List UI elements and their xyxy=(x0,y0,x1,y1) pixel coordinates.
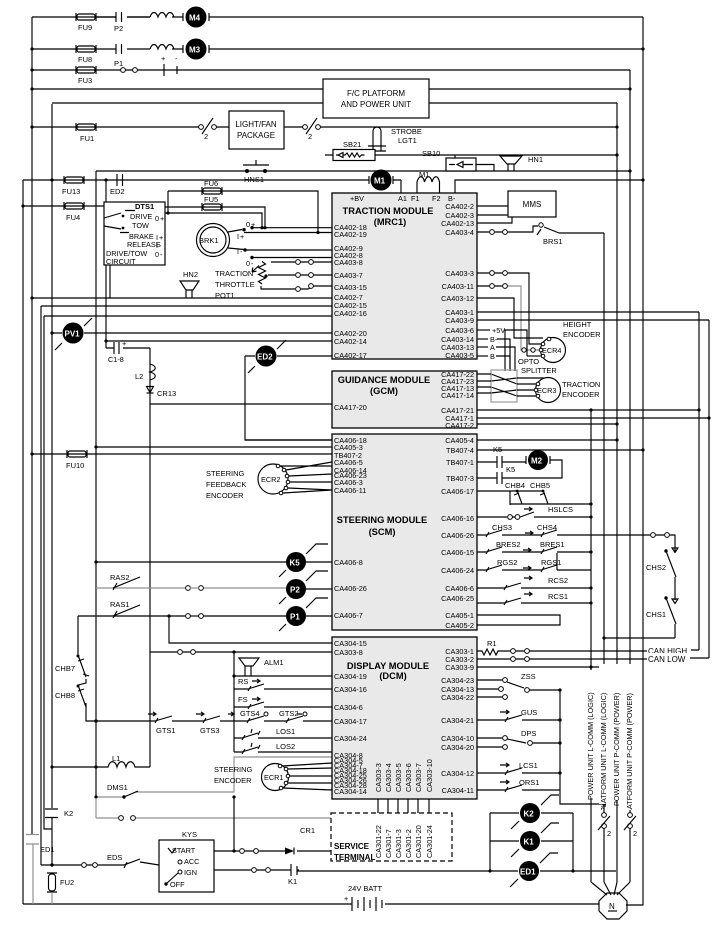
switch LCS1 row y773 xyxy=(477,761,562,775)
inductor L1 xyxy=(94,754,150,769)
label POWER UNIT P-COMM (POWER) xyxy=(612,664,621,806)
svg-text:DTS1: DTS1 xyxy=(135,202,154,211)
switch DPS rows y738 y747 xyxy=(477,729,562,749)
svg-text:FU3: FU3 xyxy=(78,76,92,85)
fuse FU4 xyxy=(64,202,84,222)
svg-text:OPTO: OPTO xyxy=(518,357,539,366)
wire right bus x617 POWER UNIT P-COMM xyxy=(616,103,618,882)
svg-text:CHS1: CHS1 xyxy=(646,610,666,619)
fuse FU13 xyxy=(62,176,84,196)
contactor P1 coil xyxy=(279,598,332,631)
svg-text:SB21: SB21 xyxy=(343,140,361,149)
contact K5 tips upper xyxy=(493,445,502,468)
diode CR1 xyxy=(285,826,315,855)
wire SB21 to SB10 to HN1 net xyxy=(325,155,617,171)
wire CA303-9 row y667 xyxy=(477,666,604,668)
svg-text:CA304-24: CA304-24 xyxy=(334,734,367,743)
svg-text:CA403-5: CA403-5 xyxy=(445,351,474,360)
wire START row y851 xyxy=(214,850,331,852)
wire RAS1 branch to DCM xyxy=(169,616,332,643)
svg-text:CA406-17: CA406-17 xyxy=(441,487,474,496)
svg-text:PLATFORM UNIT L-COMM (LOGIC): PLATFORM UNIT L-COMM (LOGIC) xyxy=(599,693,608,812)
svg-text:HN2: HN2 xyxy=(183,270,198,279)
suppressor SB21 box xyxy=(333,140,375,161)
svg-text:CA301-20: CA301-20 xyxy=(414,825,423,858)
wire left bus x52 lower xyxy=(51,818,53,865)
wire right bus x630 PLATFORM UNIT P-COMM xyxy=(629,70,631,882)
fuse FU5 xyxy=(202,195,222,211)
svg-text:P2: P2 xyxy=(290,586,300,595)
wire row CA406-18 feed xyxy=(245,439,332,441)
svg-text:EDS: EDS xyxy=(107,853,122,862)
wire CA402-3 to MMS xyxy=(477,214,508,216)
switch CHS2 xyxy=(646,537,678,600)
svg-text:BRK1: BRK1 xyxy=(199,236,219,245)
svg-text:FU13: FU13 xyxy=(62,187,80,196)
wire row CA405-3 y447 xyxy=(96,446,332,448)
svg-text:DPS: DPS xyxy=(521,729,536,738)
svg-text:CA406-25: CA406-25 xyxy=(441,594,474,603)
svg-text:CA303-5: CA303-5 xyxy=(394,763,403,792)
contactor M3 xyxy=(183,39,209,60)
switch DMS1 xyxy=(94,757,332,799)
encoder ECR4 height encoder xyxy=(527,320,601,363)
module DISPLAY MODULE box xyxy=(332,637,477,799)
svg-text:CA403-11: CA403-11 xyxy=(442,282,474,291)
svg-text:POT1: POT1 xyxy=(215,291,235,300)
svg-text:M3: M3 xyxy=(189,46,201,55)
svg-text:CA303-6: CA303-6 xyxy=(404,763,413,792)
svg-text:CA406-24: CA406-24 xyxy=(441,566,474,575)
svg-text:HN1: HN1 xyxy=(528,155,543,164)
label PLATFORM UNIT L-COMM (LOGIC) xyxy=(599,664,608,812)
diode SB10 box xyxy=(422,149,476,171)
wire row TB407-3 y478 xyxy=(477,477,497,479)
svg-text:I: I xyxy=(237,247,239,256)
svg-text:CA403-15: CA403-15 xyxy=(334,283,367,292)
svg-text:CA402-14: CA402-14 xyxy=(334,337,367,346)
wire row y306 xyxy=(41,305,332,307)
svg-text:POWER UNIT P-COMM (POWER): POWER UNIT P-COMM (POWER) xyxy=(612,693,621,806)
svg-text:P1: P1 xyxy=(114,59,123,68)
svg-text:CHS3: CHS3 xyxy=(492,523,512,532)
wire row y89 xyxy=(32,88,630,90)
wire row M3 y49 xyxy=(32,48,643,50)
svg-text:PV1: PV1 xyxy=(65,330,81,339)
wire K ladder verticals xyxy=(490,813,573,871)
svg-text:POWER UNIT L-COMM (LOGIC): POWER UNIT L-COMM (LOGIC) xyxy=(586,692,595,800)
svg-text:LOS1: LOS1 xyxy=(276,727,295,736)
svg-text:CA417-20: CA417-20 xyxy=(334,403,367,412)
svg-text:LIGHT/FAN: LIGHT/FAN xyxy=(235,120,277,129)
switch BRES2 BRES1 row y552 xyxy=(477,540,593,554)
svg-text:CA304-6: CA304-6 xyxy=(334,703,363,712)
wire N funnel xyxy=(591,882,630,895)
svg-text:ECR2: ECR2 xyxy=(261,475,280,484)
svg-text:CA403-12: CA403-12 xyxy=(441,294,474,303)
svg-text:RS: RS xyxy=(238,677,248,686)
svg-text:CA304-15: CA304-15 xyxy=(334,639,367,648)
contacts pot row2 xyxy=(296,273,314,278)
svg-text:RAS2: RAS2 xyxy=(110,573,130,582)
svg-text:ED2: ED2 xyxy=(257,353,273,362)
wire row FU3 y70 xyxy=(32,69,630,71)
svg-text:BRES1: BRES1 xyxy=(540,540,565,549)
wire collector x560 to platform line xyxy=(560,690,604,804)
wire CHB bottoms to BRS1 bus xyxy=(510,503,591,505)
wire left bus x41 xyxy=(40,306,42,865)
svg-text:0: 0 xyxy=(155,250,159,259)
switch RS row y689 xyxy=(234,677,332,691)
switch CHB4 xyxy=(477,481,525,505)
svg-text:B: B xyxy=(490,352,495,361)
svg-text:CA301-24: CA301-24 xyxy=(425,825,434,858)
svg-text:CA405-1: CA405-1 xyxy=(445,611,474,620)
svg-text:CA406-8: CA406-8 xyxy=(334,558,363,567)
node N octagon xyxy=(599,893,627,919)
contactor ED2 xyxy=(245,340,332,373)
svg-text:I: I xyxy=(156,241,158,250)
svg-text:CHB4: CHB4 xyxy=(505,481,525,490)
wire M2 loop xyxy=(502,460,562,478)
svg-text:TB407-1: TB407-1 xyxy=(446,458,474,467)
wire row CA403-1 CAN HIGH feed xyxy=(477,311,699,313)
light/fan package box xyxy=(229,111,284,149)
svg-text:(SCM): (SCM) xyxy=(369,527,396,537)
contact ED1 tips left xyxy=(26,835,55,905)
switch GUS row y720 xyxy=(477,708,562,722)
polarized terminals + - xyxy=(161,54,178,76)
svg-text:BRS1: BRS1 xyxy=(543,237,563,246)
svg-text:L1: L1 xyxy=(112,754,120,763)
wire row y298 xyxy=(32,297,332,299)
svg-text:+: + xyxy=(251,220,255,229)
switch CHS3 CHS4 row y535 xyxy=(477,523,675,537)
wire row CA403-12 y298 xyxy=(477,298,543,338)
svg-text:CA303-4: CA303-4 xyxy=(384,763,393,792)
wire CAN HIGH y650 xyxy=(529,650,699,651)
contactor K2 xyxy=(490,795,573,829)
svg-text:TB407-3: TB407-3 xyxy=(446,474,474,483)
svg-text:CA304-20: CA304-20 xyxy=(441,743,474,752)
svg-text:ED1: ED1 xyxy=(520,868,536,877)
diode CR13 xyxy=(147,387,177,399)
box MMS xyxy=(508,191,556,217)
svg-text:FEEDBACK: FEEDBACK xyxy=(206,480,246,489)
svg-text:CA403-3: CA403-3 xyxy=(445,269,474,278)
switch LOS2 row y752 xyxy=(234,742,332,754)
svg-text:HEIGHT: HEIGHT xyxy=(563,320,592,329)
svg-text:CA304-16: CA304-16 xyxy=(334,685,367,694)
svg-text:ZSS: ZSS xyxy=(521,672,536,681)
wire row CA303-8 y652 xyxy=(150,651,332,653)
encoder ECR3 traction encoder xyxy=(517,378,600,403)
svg-text:TERMINAL: TERMINAL xyxy=(334,853,375,862)
wire row y767 left xyxy=(52,766,96,768)
svg-text:+: + xyxy=(344,894,348,903)
svg-text:P1: P1 xyxy=(290,613,300,622)
contactor PV1 xyxy=(50,318,106,350)
svg-text:K2: K2 xyxy=(524,810,535,819)
disconnect 2 on x630 xyxy=(624,810,637,838)
svg-text:ENCODER: ENCODER xyxy=(562,390,600,399)
svg-text:+: + xyxy=(122,339,126,348)
wire DCM to service terminal pins xyxy=(378,799,429,813)
wire pot row2 y275 xyxy=(268,274,332,276)
svg-text:CA304-12: CA304-12 xyxy=(441,769,474,778)
connector contacts row FU3 xyxy=(121,68,138,73)
svg-text:CA303-10: CA303-10 xyxy=(425,759,434,792)
svg-text:CA301-22: CA301-22 xyxy=(374,825,383,858)
wire CHS chain bottom y638 xyxy=(604,637,675,639)
contactor M1 motor circle xyxy=(369,170,393,191)
switch GTS1 GTS3 GTS4 GTS2 row y721 xyxy=(94,709,332,735)
wire row CA403-11 y286 xyxy=(477,285,502,287)
wire row TB407-4 y450 xyxy=(477,449,643,451)
svg-text:CA304-10: CA304-10 xyxy=(441,734,474,743)
wire B stub xyxy=(477,352,510,371)
horn HN2 xyxy=(180,270,199,298)
wire row CA304-19 y676 xyxy=(234,675,332,677)
wire mid bus x150 xyxy=(149,348,151,767)
svg-text:M2: M2 xyxy=(531,457,543,466)
fuse FU10 xyxy=(66,450,87,470)
contactor P2 coil xyxy=(279,571,332,604)
svg-text:CA406-16: CA406-16 xyxy=(441,514,474,523)
wire row +BV y180 xyxy=(23,180,643,193)
wire row CA405-4 y440 xyxy=(477,439,617,441)
svg-text:START: START xyxy=(172,846,196,855)
wire row FU4 y206 xyxy=(23,205,104,207)
svg-text:LGT1: LGT1 xyxy=(398,136,417,145)
svg-text:ED1: ED1 xyxy=(40,845,55,854)
svg-text:HSLCS: HSLCS xyxy=(548,505,573,514)
svg-text:ECR1: ECR1 xyxy=(264,773,283,782)
battery 24V xyxy=(344,884,385,911)
svg-text:FS: FS xyxy=(238,695,248,704)
svg-text:IGN: IGN xyxy=(184,868,197,877)
svg-text:GTS2: GTS2 xyxy=(279,709,299,718)
wire right bus x604 PLATFORM UNIT L-COMM xyxy=(603,233,605,882)
encoder ECR1 steering encoder xyxy=(214,763,332,791)
switch RAS2 xyxy=(96,573,286,590)
svg-text:DMS1: DMS1 xyxy=(107,783,128,792)
wire GCM pin CA417-20 row xyxy=(150,403,332,405)
svg-text:CA304-19: CA304-19 xyxy=(334,672,367,681)
switch CHB7 xyxy=(55,616,89,677)
switch CHB5 xyxy=(510,481,550,504)
wire right bus x643 xyxy=(626,17,643,905)
svg-text:0: 0 xyxy=(246,220,250,229)
svg-text:+: + xyxy=(240,232,244,241)
svg-text:(DCM): (DCM) xyxy=(379,671,406,681)
svg-text:ECR3: ECR3 xyxy=(537,386,556,395)
fuse FU9 xyxy=(76,13,96,32)
wire CAN HIGH vertical x699 xyxy=(698,312,700,650)
svg-text:ACC: ACC xyxy=(184,857,199,866)
contact K1 tips xyxy=(288,864,297,886)
wire +5V stub xyxy=(477,326,527,371)
svg-text:CA301-2: CA301-2 xyxy=(404,829,413,858)
svg-text:CA403-4: CA403-4 xyxy=(445,228,474,237)
contactor M4 xyxy=(183,7,209,28)
wire row y103 xyxy=(52,102,617,104)
switch 2 right of light/fan xyxy=(303,118,321,141)
svg-text:K1: K1 xyxy=(524,838,535,847)
svg-text:CA406-26: CA406-26 xyxy=(334,584,367,593)
box KYS key switch xyxy=(159,830,214,892)
svg-text:STEERING: STEERING xyxy=(214,765,253,774)
capacitor P1 xyxy=(114,44,123,68)
wire CA417-2 row xyxy=(477,423,617,425)
switch LOS1 row y738 xyxy=(234,727,332,740)
svg-text:24V BATT: 24V BATT xyxy=(348,884,382,893)
svg-text:CHS2: CHS2 xyxy=(646,563,666,572)
contact ED2 tips xyxy=(110,174,125,196)
svg-text:FU8: FU8 xyxy=(78,55,92,64)
wire CAN LOW y659 xyxy=(477,658,709,659)
svg-text:ENCODER: ENCODER xyxy=(206,491,244,500)
wire left bus x32 xyxy=(31,17,33,834)
svg-text:TOW: TOW xyxy=(132,221,149,230)
switch ORS1 row y790 xyxy=(477,778,560,792)
svg-text:CA402-16: CA402-16 xyxy=(334,309,367,318)
svg-text:SB10: SB10 xyxy=(422,149,440,158)
wire mid bus x218 xyxy=(233,652,235,752)
svg-text:CA304-23: CA304-23 xyxy=(441,676,474,685)
inductor top row1 xyxy=(150,13,174,18)
svg-text:GUIDANCE MODULE: GUIDANCE MODULE xyxy=(338,375,430,385)
svg-text:P2: P2 xyxy=(114,24,123,33)
contacts CA303-8 row xyxy=(178,650,196,655)
svg-text:CHB5: CHB5 xyxy=(530,481,550,490)
svg-text:CAN LOW: CAN LOW xyxy=(648,655,686,664)
coil BRK1 xyxy=(197,224,230,257)
svg-text:2: 2 xyxy=(607,829,611,838)
svg-text:FU9: FU9 xyxy=(78,23,92,32)
wire CA402-2 to MMS xyxy=(477,205,508,207)
svg-text:CA417-14: CA417-14 xyxy=(441,391,474,400)
svg-text:OFF: OFF xyxy=(170,880,185,889)
svg-text:M1: M1 xyxy=(374,177,386,186)
switch 2 left of light/fan xyxy=(199,118,217,141)
fuse FU6 xyxy=(202,179,222,195)
inductor M1 xyxy=(417,170,440,193)
svg-text:F2: F2 xyxy=(432,194,441,203)
svg-text:CA403-7: CA403-7 xyxy=(334,271,363,280)
svg-text:CA303-8: CA303-8 xyxy=(334,648,363,657)
contacts pot row1 xyxy=(296,260,314,265)
svg-text:ECR4: ECR4 xyxy=(542,346,561,355)
inductor top row2 xyxy=(150,45,174,50)
wire BRS1 row y232 xyxy=(477,226,604,233)
svg-text:L2: L2 xyxy=(135,372,143,381)
svg-text:CA406-15: CA406-15 xyxy=(441,548,474,557)
switch RAS1 xyxy=(78,600,286,618)
svg-text:CR13: CR13 xyxy=(157,389,176,398)
wire CA417-21 row xyxy=(477,409,699,411)
svg-text:DISPLAY MODULE: DISPLAY MODULE xyxy=(347,661,429,671)
svg-text:0: 0 xyxy=(246,259,250,268)
svg-text:K5: K5 xyxy=(290,559,301,568)
svg-text:+BV: +BV xyxy=(350,194,364,203)
svg-text:0: 0 xyxy=(155,214,159,223)
label POWER UNIT L-COMM (LOGIC) xyxy=(586,670,595,800)
svg-text:ALM1: ALM1 xyxy=(264,658,284,667)
svg-text:GTS3: GTS3 xyxy=(200,726,220,735)
svg-text:THROTTLE: THROTTLE xyxy=(215,280,255,289)
svg-text:CA405-2: CA405-2 xyxy=(445,621,474,630)
wire row CA403-3 y273 xyxy=(477,273,541,344)
contactor M2 xyxy=(526,450,550,470)
svg-text:M1: M1 xyxy=(419,170,429,179)
wire row HNS1 y171 xyxy=(96,170,630,172)
svg-text:DRIVE: DRIVE xyxy=(130,212,152,221)
switch HNS1 xyxy=(243,160,269,184)
wire row FU5 y207 xyxy=(165,207,265,228)
wire CA405-1 CA405-2 loop xyxy=(477,615,560,625)
svg-text:(MRC1): (MRC1) xyxy=(374,217,407,227)
fuse FU8 xyxy=(76,45,96,64)
svg-text:CHB8: CHB8 xyxy=(55,691,75,700)
svg-text:A1: A1 xyxy=(398,194,407,203)
wire pot row3 y286 xyxy=(261,286,332,289)
svg-text:CA402-13: CA402-13 xyxy=(441,219,474,228)
fuse FU2 xyxy=(47,873,74,904)
wire mid bus x96 xyxy=(95,171,97,798)
wire DTS1 output xyxy=(165,213,262,228)
wire BRK1 upper leads xyxy=(228,220,332,241)
svg-text:MMS: MMS xyxy=(523,200,542,209)
svg-text:CA303-9: CA303-9 xyxy=(445,663,474,672)
label PLATFORM UNIT P-COMM (POWER) xyxy=(625,664,634,818)
wire ED2 drop x245 xyxy=(245,356,332,440)
contacts BRS1 xyxy=(490,230,508,235)
svg-text:RAS1: RAS1 xyxy=(110,600,130,609)
svg-text:CA405-4: CA405-4 xyxy=(445,436,474,445)
svg-text:F/C PLATFORM: F/C PLATFORM xyxy=(347,89,405,98)
svg-text:CA301-7: CA301-7 xyxy=(384,829,393,858)
capacitor P2 xyxy=(96,12,150,33)
svg-text:CA403-9: CA403-9 xyxy=(445,316,474,325)
contacts CA403-3 xyxy=(490,271,508,276)
svg-text:RCS2: RCS2 xyxy=(548,576,568,585)
wire row FU10 y454 xyxy=(32,453,332,455)
svg-text:SERVICE: SERVICE xyxy=(334,842,370,851)
contacts pot row3 xyxy=(296,284,314,292)
box opto splitter xyxy=(491,357,557,402)
svg-text:GTS1: GTS1 xyxy=(156,726,176,735)
svg-text:TRACTION MODULE: TRACTION MODULE xyxy=(343,206,434,216)
svg-text:CIRCUIT: CIRCUIT xyxy=(106,257,136,266)
svg-text:2: 2 xyxy=(633,829,637,838)
F/C platform and power unit box xyxy=(323,79,429,118)
svg-text:CA406-7: CA406-7 xyxy=(334,611,363,620)
strobe LGT1 xyxy=(368,127,422,151)
wire CA402-13 xyxy=(477,217,512,223)
svg-text:CR1: CR1 xyxy=(300,826,315,835)
svg-text:K5: K5 xyxy=(493,445,502,454)
svg-text:CA304-14: CA304-14 xyxy=(334,787,367,796)
svg-text:CA402-17: CA402-17 xyxy=(334,351,367,360)
wire BRK1 lower leads xyxy=(228,247,332,268)
svg-text:A: A xyxy=(490,343,495,352)
wire row M4 y17 xyxy=(32,16,643,18)
wire row y818 gray xyxy=(96,798,331,820)
svg-text:I: I xyxy=(237,232,239,241)
potentiometer POT1 xyxy=(215,262,268,301)
switch CHS1 xyxy=(646,596,678,638)
